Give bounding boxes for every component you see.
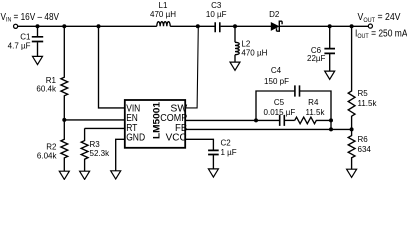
svg-text:22µF: 22µF [307,54,326,63]
wire COMP net [185,119,279,121]
capacitor C5 [280,115,285,126]
junction R4 right [329,118,333,122]
junction R1 [62,24,66,28]
capacitor C3 [215,22,220,32]
junction COMP [254,118,258,122]
resistor R1 [61,26,68,120]
ground C2 [208,169,218,177]
junction R5 [350,24,354,28]
junction VIN [97,24,101,28]
svg-text:L1: L1 [159,1,168,10]
svg-text:11.5k: 11.5k [306,108,326,117]
resistor R4 [295,117,331,124]
svg-text:6.04k: 6.04k [37,151,58,160]
junction FB divider [350,127,354,131]
ground L2 [230,62,240,70]
svg-text:4.7 µF: 4.7 µF [8,42,31,51]
svg-text:11.5k: 11.5k [358,99,378,108]
svg-text:52.3k: 52.3k [90,149,111,158]
resistor R2 [61,120,68,171]
capacitor C1 [37,27,39,36]
svg-text:C5: C5 [274,98,285,107]
diode D2 cathode schottky [277,21,283,31]
svg-text:1 µF: 1 µF [221,148,237,157]
wire VCC pin [185,139,213,150]
svg-text:60.4k: 60.4k [36,84,57,93]
resistor R6 [348,129,355,169]
ground R2 [59,171,69,179]
svg-text:634: 634 [358,145,372,154]
ground GND pin [111,171,121,179]
svg-text:R3: R3 [90,140,101,149]
wire SW feed [186,26,198,108]
wire VIN feed [99,26,125,108]
junction L2 [233,24,237,28]
wire rail D2 to output [279,25,368,27]
svg-text:VCC: VCC [166,133,187,144]
wire C4 branch [256,91,294,120]
svg-text:C2: C2 [221,138,232,147]
svg-text:150 pF: 150 pF [264,77,289,86]
diode D2 anode triangle [271,23,279,31]
svg-text:C4: C4 [271,66,282,75]
junction FB C4 [329,127,333,131]
junction SW [196,24,200,28]
svg-text:R6: R6 [358,135,369,144]
junction C6 [328,24,332,28]
ground R6 [347,169,357,177]
resistor R5 [348,26,355,129]
svg-text:GND: GND [126,133,145,144]
svg-text:LM5001: LM5001 [151,102,161,139]
wire rail L1 to C3 [170,25,214,27]
capacitor C2 [208,150,219,154]
svg-text:C1: C1 [20,33,31,42]
svg-text:C3: C3 [211,1,222,10]
svg-text:R2: R2 [46,142,57,151]
ground C6 [325,71,335,79]
svg-text:0.015 µF: 0.015 µF [264,108,296,117]
svg-text:R4: R4 [308,98,319,107]
output terminal [368,24,372,28]
junction EN [62,118,66,122]
capacitor C4 [295,85,300,96]
junction C1 [36,24,40,28]
ground C1 [33,56,43,64]
wire top rail left segment [18,25,157,27]
svg-text:470 µH: 470 µH [241,48,267,57]
svg-text:R5: R5 [358,89,369,98]
IC U1 LM5001 box [125,100,185,148]
svg-text:10 µF: 10 µF [206,10,227,19]
wire RT [85,127,125,129]
inductor L1 [157,22,170,27]
ground R3 [80,171,90,179]
capacitor C6 [329,26,331,48]
resistor R3 [81,128,88,171]
input terminal [14,24,18,28]
svg-text:D2: D2 [269,10,280,19]
svg-text:L2: L2 [241,39,250,48]
wire EN [64,119,124,121]
wire GND pin [116,139,125,171]
inductor L2 [234,26,236,42]
wire rail C3 to D2 [221,25,272,27]
svg-text:470 µH: 470 µH [150,10,176,19]
wire FB [185,128,351,130]
